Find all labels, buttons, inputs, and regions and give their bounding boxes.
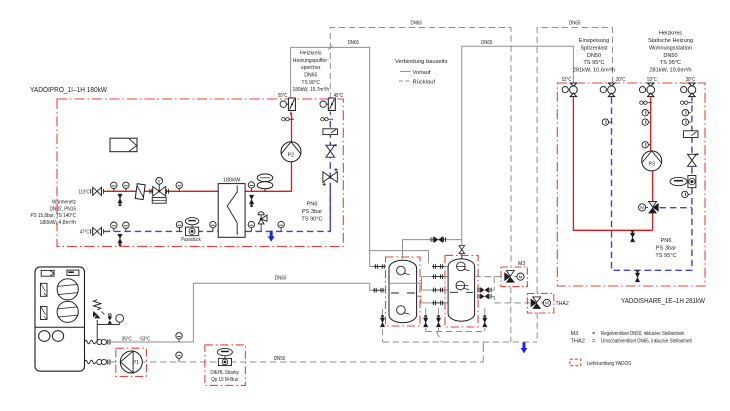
thermometer CHP return (176, 352, 182, 362)
svg-text:Statische Heizung: Statische Heizung (648, 38, 693, 44)
wire ruecklauf-bus dashed top (330, 28, 612, 294)
flange tank gap row3 (432, 288, 444, 293)
drain return (118, 234, 122, 246)
svg-text:PS 3bar: PS 3bar (656, 246, 676, 252)
label Waermenetz block (31, 200, 77, 226)
fitting CHP supply flanges (97, 339, 110, 344)
valve riser4 (688, 153, 699, 166)
svg-text:M: M (640, 205, 644, 210)
valve 3way mixing right (639, 201, 659, 213)
valve tank2 right lower (478, 294, 491, 300)
svg-text:45°C: 45°C (334, 93, 344, 99)
legend Lieferumfang YADOS (570, 359, 632, 367)
valve M3 red box (501, 267, 527, 287)
meter DIEHL Sharky (210, 348, 239, 382)
flange tank1 left mid (373, 288, 385, 293)
svg-text:180kW, 15,7m³/h: 180kW, 15,7m³/h (293, 87, 330, 93)
svg-text:30°C: 30°C (616, 77, 626, 83)
valve M3 (504, 271, 524, 283)
component CHP inner hx small (41, 270, 54, 276)
tank T1 red box (386, 257, 421, 326)
svg-text:Regelventilset DN50, inklusive: Regelventilset DN50, inklusive Stellantr… (601, 331, 684, 337)
svg-text:M: M (545, 301, 549, 306)
svg-text:M3: M3 (571, 331, 579, 337)
svg-text:TS 95°C: TS 95°C (583, 60, 604, 66)
thermometer return right (278, 221, 284, 231)
svg-text:DN65: DN65 (411, 21, 422, 27)
component CHP rect gauge 1 (40, 283, 47, 296)
thermometer supply after valve (176, 182, 182, 191)
svg-text:speicher: speicher (301, 65, 321, 71)
safety valve group CHP (93, 300, 120, 342)
gauge supply 1 (111, 182, 117, 191)
thermometer hx out (248, 182, 254, 192)
boundary right red dash-dot box (557, 83, 705, 286)
svg-text:PS 3bar: PS 3bar (302, 209, 322, 215)
thermometer return left of hx (210, 221, 216, 231)
valve return inlet (91, 227, 104, 235)
component heat meter rect right column (323, 129, 338, 135)
gauge riser3 c (642, 142, 651, 148)
component CHP unit body (35, 267, 85, 371)
svg-text:47°C: 47°C (80, 230, 90, 236)
svg-text:53°C: 53°C (562, 77, 572, 83)
blue arrow left box (268, 231, 275, 242)
svg-text:DN50: DN50 (663, 53, 677, 59)
flow meter Passstueck (181, 218, 201, 243)
svg-text:DN32, PN16: DN32, PN16 (50, 206, 77, 212)
riser valve 1 (562, 83, 577, 97)
thermometer riser2 (602, 119, 611, 125)
tank T2 (448, 259, 475, 321)
thermometer riser4 low (682, 191, 691, 197)
component CHP rect gauge 2 (40, 307, 47, 320)
drain tank2 right (483, 315, 487, 327)
svg-text:=: = (592, 331, 595, 337)
label Heizkreis Statische Heizung block (648, 31, 693, 74)
label PN6 PS 3bar TS 90C (301, 202, 322, 223)
expansion vessel supply (257, 174, 273, 191)
union riser3 (640, 101, 652, 104)
valve right column upper (326, 144, 337, 157)
svg-text:53°C: 53°C (647, 77, 657, 83)
component CHP pumps bottom (39, 331, 64, 342)
drain on blue bottom (635, 270, 639, 282)
svg-text:TS 90°C: TS 90°C (302, 80, 321, 86)
wire vorlauf-bus solid top (462, 46, 574, 245)
svg-text:35°C . . . 53°C: 35°C . . . 53°C (122, 336, 151, 342)
drain on red bottom (630, 230, 634, 242)
flange tank gap row4 (432, 301, 444, 306)
boundary left red dash-dot box (57, 99, 343, 246)
svg-text:Heizungspuffer-: Heizungspuffer- (293, 58, 329, 64)
thermometer return mid (248, 221, 254, 231)
svg-text:DN65: DN65 (481, 40, 492, 46)
valve THA2 red box (527, 293, 553, 313)
union riser4 (681, 101, 693, 104)
pump P1 box (116, 348, 147, 376)
valve 3-way motor supply (150, 177, 169, 203)
label Einspeisung Spitzenlast block (573, 38, 615, 74)
drain hx out (249, 195, 253, 207)
svg-text:YADOIPRO_1I–1H 180kW: YADOIPRO_1I–1H 180kW (30, 85, 107, 94)
svg-text:Heizkreis: Heizkreis (659, 31, 682, 37)
svg-text:PS 15,8bar, TS 140°C: PS 15,8bar, TS 140°C (31, 213, 77, 219)
drain supply (118, 194, 122, 206)
wire tank gap rows (417, 267, 449, 303)
svg-text:P3: P3 (649, 161, 655, 167)
component CHP label plate (67, 270, 79, 275)
svg-text:YADOISHARE_1E–1H 281kW: YADOISHARE_1E–1H 281kW (621, 296, 705, 305)
wire supply red 110C (104, 113, 292, 191)
svg-text:Qp 10 M-Bus: Qp 10 M-Bus (211, 377, 238, 383)
union below 45C sensor (321, 118, 333, 121)
legend Verbindung bauseits (395, 59, 448, 86)
svg-text:Spitzenlast: Spitzenlast (580, 45, 608, 51)
sensor well 45C (320, 93, 343, 115)
wire CHP return dashed (110, 342, 483, 362)
svg-text:180kW: 180kW (223, 177, 241, 183)
wire CHP supply to riser (110, 283, 370, 342)
meter DIEHL Sharky box (205, 345, 246, 386)
svg-text:THA2: THA2 (571, 338, 585, 344)
thermometer return left of passstueck (176, 221, 182, 231)
component balancing valve riser4 (683, 131, 698, 138)
gauge on safety branch (116, 314, 124, 324)
svg-text:DN50: DN50 (275, 275, 287, 281)
gauge riser3 a (642, 110, 651, 116)
riser valve 2 (600, 83, 615, 97)
svg-text:281kW, 10,6m³/h: 281kW, 10,6m³/h (649, 68, 691, 74)
component plate hx symbol top left (110, 138, 137, 152)
svg-text:M: M (519, 274, 523, 279)
wire riser2 blue (612, 97, 692, 270)
flange tank1 left top (374, 264, 386, 269)
svg-text:DN50: DN50 (587, 53, 601, 59)
junction tick label box top (328, 45, 332, 49)
meter riser4 (670, 176, 696, 188)
vent valve tank2 top (459, 246, 465, 260)
valve supply inlet (91, 187, 104, 195)
strainer supply (135, 184, 145, 200)
svg-text:PN6: PN6 (661, 238, 672, 244)
component CHP fan 2 (57, 301, 78, 322)
safety valve return (258, 212, 267, 232)
svg-text:TS 95°C: TS 95°C (660, 60, 681, 66)
svg-text:M3: M3 (518, 261, 525, 267)
valve tank2 right upper (478, 287, 491, 293)
svg-text:55°C: 55°C (278, 93, 288, 99)
wire V1 from label box to tank1 (370, 50, 374, 290)
flange tank gap row2 (432, 274, 444, 279)
svg-text:DN50: DN50 (274, 356, 286, 362)
wire M3 THA2 columns dashed (475, 277, 538, 342)
svg-text:P1: P1 (133, 360, 139, 366)
legend M3 THA2 (571, 331, 693, 344)
wire CHP return flex (85, 360, 96, 364)
valve THA2 (531, 297, 551, 309)
wire CHP supply flex (85, 340, 96, 344)
union below 55C sensor (282, 118, 294, 121)
fitting CHP return flanges (97, 359, 110, 364)
svg-text:Passstück: Passstück (181, 237, 201, 243)
wire bottom bus dashed (383, 308, 538, 352)
valve right column lower X (322, 168, 338, 186)
drain tank2 left (436, 315, 440, 327)
svg-text:110°C: 110°C (78, 190, 89, 196)
heat exchanger 180kW (218, 177, 245, 237)
svg-text:Heizkreis: Heizkreis (300, 50, 322, 56)
node label box Heizkreis Heizungspufferspeicher (291, 47, 370, 99)
drain tank1 right (424, 315, 428, 327)
wire blue branch to 3way (660, 207, 692, 209)
gauge return 2 (123, 222, 129, 231)
pump P3 (642, 151, 662, 171)
pump P1 (120, 351, 142, 373)
wire supply across tank1 (389, 282, 422, 284)
drain on safety branch (108, 314, 112, 324)
svg-text:Umschaltventilset DN65, inklus: Umschaltventilset DN65, inklusive Stella… (601, 338, 692, 344)
svg-text:DN65: DN65 (304, 73, 317, 79)
svg-text:P2: P2 (288, 152, 294, 158)
wire riser1 red (573, 97, 652, 230)
sensor well 55C (278, 93, 295, 115)
wire return blue 47C (104, 186, 330, 231)
flange tank gap row1 (432, 264, 444, 269)
drain tank1 left (380, 315, 384, 327)
svg-text:THA2: THA2 (556, 301, 569, 307)
valve on tank top feed (431, 236, 445, 243)
gauge riser3 b (642, 119, 651, 125)
gauge riser4 a (682, 110, 691, 116)
svg-text:180kW, 4,8m³/h: 180kW, 4,8m³/h (40, 220, 77, 226)
svg-text:Wärmenetz: Wärmenetz (52, 200, 76, 206)
svg-text:PN6: PN6 (307, 202, 318, 208)
gauge riser4 b (682, 119, 691, 125)
svg-text:DN65: DN65 (348, 40, 359, 46)
riser valve 3 (639, 83, 654, 97)
tank T2 red box (445, 255, 478, 327)
label PN6 PS 3bar TS 95C (655, 238, 676, 259)
svg-text:30°C: 30°C (686, 77, 696, 83)
gauge supply 2 (123, 182, 129, 191)
blue arrow bottom bus (521, 343, 528, 354)
svg-text:=: = (592, 338, 595, 344)
gauge return 1 (111, 222, 117, 231)
svg-text:Rücklauf: Rücklauf (413, 80, 436, 86)
svg-text:DIEHL Sharky: DIEHL Sharky (210, 370, 239, 376)
tank T1 (389, 260, 417, 322)
wire blue right column (329, 121, 331, 231)
svg-text:Verbindung bauseits: Verbindung bauseits (395, 59, 448, 65)
svg-text:Vorlauf: Vorlauf (413, 70, 431, 76)
wire tank top feed from vorlauf (370, 240, 462, 264)
pump P2 (281, 142, 301, 162)
svg-text:DN65: DN65 (569, 21, 580, 27)
component CHP fan 1 (57, 279, 78, 300)
svg-text:281kW, 10,6m³/h: 281kW, 10,6m³/h (573, 68, 615, 74)
svg-text:Wohnungsstation: Wohnungsstation (649, 45, 692, 51)
svg-text:TS 95°C: TS 95°C (655, 253, 676, 259)
svg-text:TS 90°C: TS 90°C (301, 217, 322, 223)
riser valve 4 (681, 83, 696, 97)
svg-text:Lieferumfang YADOS: Lieferumfang YADOS (587, 361, 632, 367)
thermometer CHP supply (176, 333, 182, 342)
svg-text:Einspeisung: Einspeisung (579, 38, 609, 44)
